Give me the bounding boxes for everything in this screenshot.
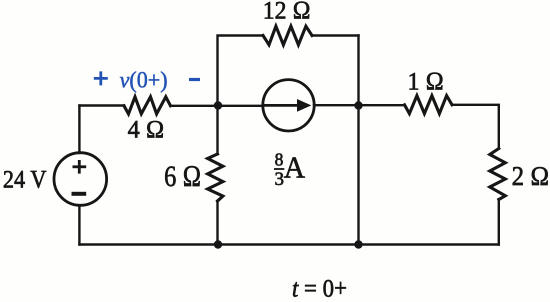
svg-text:v(0+): v(0+): [120, 67, 168, 93]
svg-text:A: A: [284, 150, 305, 185]
svg-text:4 Ω: 4 Ω: [128, 116, 165, 143]
svg-text:6 Ω: 6 Ω: [164, 159, 201, 192]
svg-text:2 Ω: 2 Ω: [512, 161, 550, 191]
svg-text:12 Ω: 12 Ω: [263, 0, 311, 25]
svg-text:8: 8: [275, 150, 284, 170]
svg-text:1 Ω: 1 Ω: [407, 68, 443, 96]
svg-text:t = 0+: t = 0+: [292, 276, 347, 302]
svg-text:24 V: 24 V: [3, 166, 46, 193]
svg-text:3: 3: [275, 169, 285, 190]
